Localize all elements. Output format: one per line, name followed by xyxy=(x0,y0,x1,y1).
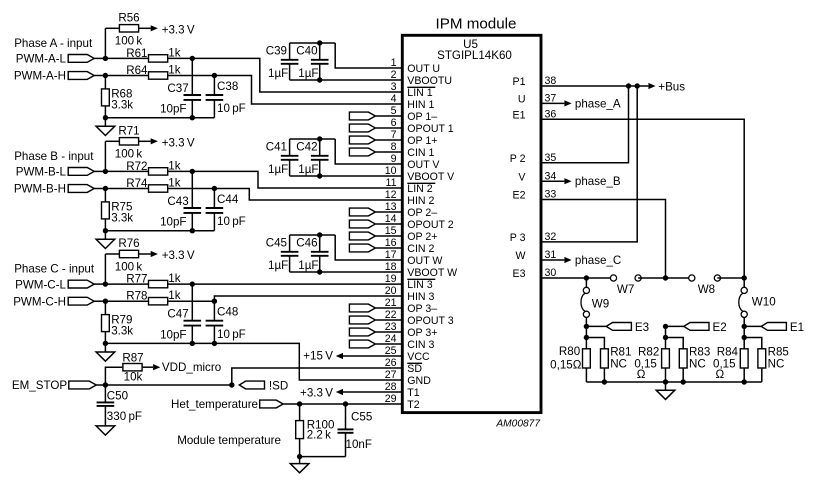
svg-text:OPOUT 2: OPOUT 2 xyxy=(407,219,453,231)
wire ground rail xyxy=(105,117,214,119)
connector !SD xyxy=(239,381,264,389)
resistor R75 3.3k xyxy=(104,189,106,202)
junction R74 output / cap top xyxy=(212,186,217,191)
svg-text:IPM module: IPM module xyxy=(435,16,516,33)
svg-text:W10: W10 xyxy=(752,296,776,309)
resistor R61 1k xyxy=(105,57,148,59)
svg-text:C48: C48 xyxy=(217,306,238,319)
connector E1 xyxy=(744,325,761,327)
svg-text:3.3k: 3.3k xyxy=(111,99,133,112)
resistor R81 NC xyxy=(601,349,609,368)
junction E1 bottom xyxy=(742,379,747,384)
wire E2 pin 33 to E2 column xyxy=(541,200,666,279)
svg-text:10pF: 10pF xyxy=(160,328,186,341)
capacitor C41 1uF xyxy=(289,139,291,156)
svg-text:10nF: 10nF xyxy=(346,438,372,451)
resistor R87 10k xyxy=(105,367,122,385)
svg-text:phase_B: phase_B xyxy=(575,175,621,188)
svg-text:OP 3–: OP 3– xyxy=(407,303,437,315)
svg-text:NC: NC xyxy=(768,357,785,370)
svg-text:HIN 3: HIN 3 xyxy=(407,291,434,303)
svg-text:10 pF: 10 pF xyxy=(217,102,246,115)
svg-text:Ω: Ω xyxy=(716,368,725,381)
svg-text:Het_temperature: Het_temperature xyxy=(171,398,258,411)
svg-text:+3.3 V: +3.3 V xyxy=(300,386,333,399)
svg-text:C40: C40 xyxy=(296,45,317,58)
junction W10 top xyxy=(742,275,747,280)
svg-text:1µF: 1µF xyxy=(268,67,288,80)
junction rail cap xyxy=(190,115,195,120)
svg-text:OPOUT 1: OPOUT 1 xyxy=(407,123,453,135)
resistor R56 xyxy=(105,27,119,29)
wire bootstrap bottom rail to pin 10 xyxy=(290,175,403,177)
svg-text:W: W xyxy=(516,250,526,262)
svg-text:1k: 1k xyxy=(168,289,180,302)
svg-text:NC: NC xyxy=(689,357,706,370)
wire R83 branch xyxy=(666,338,684,349)
svg-text:NC: NC xyxy=(610,357,627,370)
resistor R83 NC xyxy=(679,349,687,368)
wire R85 branch xyxy=(744,338,762,349)
junction input H xyxy=(103,186,108,191)
capacitor C42 1uF xyxy=(319,139,321,156)
wire PWM-L to junction xyxy=(94,170,105,172)
wire P3 pin 32 to bus xyxy=(541,86,637,242)
junction bootstrap top xyxy=(317,232,322,237)
svg-text:OUT U: OUT U xyxy=(407,63,440,75)
svg-text:CIN 1: CIN 1 xyxy=(407,147,434,159)
wire shunt bottom rail xyxy=(586,381,761,383)
junction R61 output / cap top xyxy=(190,56,195,61)
resistor R82 0,15 Ohm xyxy=(665,338,667,349)
wire L line to pin 11 xyxy=(192,171,402,188)
svg-text:10k: 10k xyxy=(124,371,143,384)
junction EM_STOP xyxy=(103,382,108,387)
svg-text:OUT W: OUT W xyxy=(407,255,442,267)
svg-text:VCC: VCC xyxy=(407,351,430,363)
junction R83 bottom xyxy=(681,379,686,384)
svg-text:C43: C43 xyxy=(167,195,188,208)
wire R81 branch xyxy=(586,338,604,349)
capacitor C40 1uF xyxy=(319,43,321,60)
svg-text:VDD_micro: VDD_micro xyxy=(162,361,221,374)
svg-text:C42: C42 xyxy=(296,141,317,154)
svg-text:2.2 k: 2.2 k xyxy=(307,428,331,441)
svg-text:C37: C37 xyxy=(167,82,188,95)
junction input L xyxy=(103,56,108,61)
svg-text:100 k: 100 k xyxy=(115,260,143,273)
wire pull-up to input line xyxy=(104,254,106,284)
svg-text:3.3k: 3.3k xyxy=(111,212,133,225)
svg-text:3.3k: 3.3k xyxy=(111,324,133,337)
capacitor C37 10pF xyxy=(191,58,193,94)
wire H line to pin 4 xyxy=(214,76,402,105)
connector stub pin 15 xyxy=(349,232,375,240)
capacitor C47 10pF xyxy=(191,284,193,320)
svg-text:P1: P1 xyxy=(513,76,526,88)
svg-text:STGIPL14K60: STGIPL14K60 xyxy=(437,49,512,62)
ground xyxy=(104,231,106,240)
wire PWM-L to junction xyxy=(94,283,105,285)
svg-text:+3.3 V: +3.3 V xyxy=(162,137,195,150)
junction R64 output / cap top xyxy=(212,73,217,78)
wire bootstrap bottom rail to pin 18 xyxy=(290,271,403,273)
svg-text:C45: C45 xyxy=(266,237,287,250)
svg-text:OP 1–: OP 1– xyxy=(407,111,437,123)
wire to SD pin 26 xyxy=(232,368,402,385)
junction E1 connector xyxy=(742,324,747,329)
connector E2 xyxy=(666,325,684,327)
capacitor C48 10 pF xyxy=(213,301,215,320)
svg-text:R80: R80 xyxy=(559,345,580,358)
power +3.3 V arrow (R76) xyxy=(151,251,158,257)
svg-text:R72: R72 xyxy=(126,160,147,173)
capacitor C39 1uF xyxy=(289,43,291,60)
svg-text:OP 1+: OP 1+ xyxy=(407,135,437,147)
svg-text:T2: T2 xyxy=(407,399,419,411)
wire L line to pin 19 xyxy=(192,283,402,285)
junction input H xyxy=(103,299,108,304)
svg-text:W7: W7 xyxy=(617,283,634,296)
power +3.3 V arrow (R71) xyxy=(151,138,158,144)
wire E3 pin 30 rail segment 1 xyxy=(541,277,613,279)
wire L line to pin 3 xyxy=(192,58,402,92)
ground C50 xyxy=(96,426,115,435)
resistor R79 3.3k xyxy=(104,301,106,314)
wire T2 line pin 29 xyxy=(283,403,402,405)
svg-text:C38: C38 xyxy=(217,80,238,93)
junction R72 output / cap top xyxy=(190,169,195,174)
wire to pin 17 xyxy=(335,235,402,260)
resistor R76 xyxy=(105,253,119,255)
jumper W9 xyxy=(585,278,587,287)
svg-text:VBOOTU: VBOOTU xyxy=(407,75,452,87)
svg-text:CIN 3: CIN 3 xyxy=(407,339,434,351)
ground xyxy=(104,343,106,352)
svg-text:Phase A - input: Phase A - input xyxy=(14,37,93,50)
svg-text:+3.3 V: +3.3 V xyxy=(162,249,195,262)
svg-text:C47: C47 xyxy=(167,308,188,321)
svg-text:HIN 1: HIN 1 xyxy=(407,99,434,111)
svg-text:1k: 1k xyxy=(168,177,180,190)
svg-text:R56: R56 xyxy=(118,11,139,24)
svg-text:Ω: Ω xyxy=(637,368,646,381)
svg-text:1µF: 1µF xyxy=(268,163,288,176)
svg-text:R71: R71 xyxy=(118,124,139,137)
svg-text:VBOOT V: VBOOT V xyxy=(407,171,455,183)
junction R85 branch xyxy=(743,326,745,337)
svg-text:E1: E1 xyxy=(790,321,804,334)
svg-text:U: U xyxy=(518,94,526,106)
svg-text:C46: C46 xyxy=(296,237,317,250)
resistor R74 1k xyxy=(105,188,148,190)
wire to pin 9 xyxy=(335,139,402,164)
svg-text:LIN 2: LIN 2 xyxy=(407,183,432,195)
svg-text:R64: R64 xyxy=(126,64,148,77)
jumper W8 open circles xyxy=(689,275,695,281)
wire P2 pin 35 to bus xyxy=(541,86,629,163)
net phase_B arrow pin 34 xyxy=(541,180,564,182)
wire bootstrap top rail xyxy=(290,42,336,44)
connector stub pin 7 xyxy=(349,136,375,144)
resistor R84 0,15 Ohm xyxy=(743,338,745,349)
wire PWM-H to junction xyxy=(94,188,105,190)
svg-text:phase_A: phase_A xyxy=(575,97,621,110)
svg-text:!SD: !SD xyxy=(269,379,288,392)
connector stub pin 16 xyxy=(349,244,375,252)
svg-text:10pF: 10pF xyxy=(160,103,186,116)
junction C55 xyxy=(343,401,348,406)
resistor R77 1k xyxy=(105,283,148,285)
wire PWM-H to junction xyxy=(94,300,105,302)
wire H line to pin 12 xyxy=(214,189,402,201)
capacitor C45 1uF xyxy=(289,235,291,252)
capacitor C38 10 pF xyxy=(213,76,215,95)
svg-text:W8: W8 xyxy=(698,283,715,296)
connector E3 xyxy=(586,325,606,327)
IC U5 IPM module box xyxy=(402,35,541,412)
junction R81 bottom xyxy=(602,379,607,384)
junction rail left xyxy=(103,228,108,233)
svg-text:PWM-B-L: PWM-B-L xyxy=(16,166,67,179)
junction R81 branch xyxy=(585,326,587,337)
power +Bus arrow xyxy=(648,83,655,89)
wire bootstrap top rail xyxy=(290,138,336,140)
svg-text:R87: R87 xyxy=(122,351,143,364)
wire phase C rail to GND pin 27 xyxy=(214,343,402,380)
wire pull-up to input line xyxy=(104,28,106,58)
wire bootstrap top rail xyxy=(290,234,336,236)
connector stub pin 24 xyxy=(349,340,375,348)
junction E3 connector xyxy=(584,324,589,329)
svg-text:E2: E2 xyxy=(513,190,526,202)
resistor R85 NC xyxy=(758,349,766,368)
svg-text:R74: R74 xyxy=(126,177,148,190)
svg-text:R78: R78 xyxy=(126,290,147,303)
svg-text:PWM-A-H: PWM-A-H xyxy=(14,70,66,83)
svg-text:CIN 2: CIN 2 xyxy=(407,243,434,255)
svg-text:1µF: 1µF xyxy=(268,259,288,272)
capacitor C43 10pF xyxy=(191,171,193,207)
svg-text:Phase B - input: Phase B - input xyxy=(14,150,94,163)
junction input H xyxy=(103,73,108,78)
svg-text:C50: C50 xyxy=(107,389,128,402)
net phase_C arrow pin 31 xyxy=(541,259,564,261)
svg-text:E3: E3 xyxy=(635,321,649,334)
wire E3 rail segment 2 xyxy=(638,277,692,279)
svg-text:100 k: 100 k xyxy=(115,148,143,161)
wire E1 pin 36 to W10 column xyxy=(541,119,744,278)
junction E2 connector xyxy=(663,324,668,329)
wire H line to pin 20 xyxy=(214,296,402,301)
junction E2 column on rail xyxy=(663,275,668,280)
svg-text:LIN 1: LIN 1 xyxy=(407,87,432,99)
svg-text:OP 3+: OP 3+ xyxy=(407,327,437,339)
wire PWM-H to junction xyxy=(94,75,105,77)
connector stub pin 6 xyxy=(349,124,375,132)
connector stub pin 8 xyxy=(349,148,375,156)
svg-text:C39: C39 xyxy=(266,45,287,58)
svg-text:R76: R76 xyxy=(118,237,139,250)
jumper W10 xyxy=(743,278,745,287)
resistor R72 1k xyxy=(105,170,148,172)
wire EM_STOP line xyxy=(96,384,231,386)
svg-text:LIN 3: LIN 3 xyxy=(407,279,432,291)
svg-text:PWM-C-H: PWM-C-H xyxy=(13,295,66,308)
svg-text:1µF: 1µF xyxy=(298,163,318,176)
svg-text:+Bus: +Bus xyxy=(658,81,685,94)
svg-text:330 pF: 330 pF xyxy=(107,410,142,423)
wire to pin 1 xyxy=(335,43,402,68)
jumper W7 open circles xyxy=(610,275,616,281)
junction SD branch xyxy=(229,382,234,387)
resistor R68 3.3k xyxy=(104,76,106,89)
junction bootstrap top xyxy=(317,40,322,45)
wire ground rail xyxy=(105,342,214,344)
wire R100/C55 rail xyxy=(300,456,346,458)
svg-text:0,15Ω: 0,15Ω xyxy=(550,358,582,371)
capacitor C55 10nF xyxy=(345,404,347,429)
ground R100/C55 xyxy=(299,457,301,464)
connector stub pin 23 xyxy=(349,328,375,336)
resistor R64 1k xyxy=(105,75,148,77)
junction R78 output / cap top xyxy=(212,299,217,304)
junction input L xyxy=(103,169,108,174)
wire E3 rail segment 3 xyxy=(717,277,744,279)
junction bus P3 xyxy=(635,83,640,88)
wire ground rail xyxy=(105,230,214,232)
junction phase C rail / C48 xyxy=(212,341,217,346)
svg-text:100 k: 100 k xyxy=(115,35,143,48)
junction bootstrap bottom xyxy=(317,173,322,178)
resistor R78 1k xyxy=(105,300,148,302)
svg-text:R61: R61 xyxy=(126,47,147,60)
resistor R71 xyxy=(105,140,119,142)
svg-text:phase_C: phase_C xyxy=(575,254,621,267)
junction bus P2 xyxy=(626,83,631,88)
svg-text:PWM-A-L: PWM-A-L xyxy=(16,53,67,66)
junction bootstrap top xyxy=(317,136,322,141)
junction bootstrap bottom xyxy=(317,269,322,274)
svg-text:1µF: 1µF xyxy=(298,259,318,272)
junction rail cap xyxy=(190,228,195,233)
svg-text:1µF: 1µF xyxy=(298,67,318,80)
svg-text:AM00877: AM00877 xyxy=(495,419,540,430)
connector stub pin 13 xyxy=(349,208,375,216)
svg-text:OPOUT 3: OPOUT 3 xyxy=(407,315,453,327)
svg-text:V: V xyxy=(518,171,526,183)
svg-text:1k: 1k xyxy=(168,159,180,172)
wire pull-up to input line xyxy=(104,141,106,171)
net phase_A arrow pin 37 xyxy=(541,102,564,104)
svg-text:C44: C44 xyxy=(217,193,239,206)
junction R100 xyxy=(297,401,302,406)
ground shunt rail xyxy=(665,382,667,390)
svg-text:T1: T1 xyxy=(407,387,419,399)
svg-text:OP 2+: OP 2+ xyxy=(407,231,437,243)
junction rail left xyxy=(103,115,108,120)
power +3.3 V arrow (R56) xyxy=(151,25,158,31)
resistor R80 0,15 Ohm xyxy=(585,338,587,349)
wire bootstrap bottom rail to pin 2 xyxy=(290,79,403,81)
svg-text:E3: E3 xyxy=(513,268,526,280)
wire P1 pin 38 to +Bus xyxy=(541,85,648,87)
junction rail cap xyxy=(190,341,195,346)
junction E2 bottom xyxy=(663,379,668,384)
svg-text:10 pF: 10 pF xyxy=(217,328,246,341)
svg-text:Phase C - input: Phase C - input xyxy=(14,263,95,276)
capacitor C44 10 pF xyxy=(213,189,215,208)
connector stub pin 5 xyxy=(349,112,375,120)
junction input L xyxy=(103,281,108,286)
junction rail xyxy=(297,454,302,459)
svg-text:P 2: P 2 xyxy=(510,153,526,165)
svg-text:SD: SD xyxy=(407,363,422,375)
svg-text:+3.3 V: +3.3 V xyxy=(162,24,195,37)
svg-text:Module temperature: Module temperature xyxy=(177,434,281,447)
svg-text:EM_STOP: EM_STOP xyxy=(12,379,67,392)
resistor R100 2.2 k xyxy=(299,404,301,421)
connector stub pin 22 xyxy=(349,316,375,324)
svg-text:OP 2–: OP 2– xyxy=(407,207,437,219)
svg-text:C41: C41 xyxy=(266,141,287,154)
svg-text:HIN 2: HIN 2 xyxy=(407,195,434,207)
ground xyxy=(104,118,106,127)
svg-text:W9: W9 xyxy=(592,297,609,310)
svg-text:GND: GND xyxy=(407,375,431,387)
svg-text:1k: 1k xyxy=(168,46,180,59)
net VDD_micro arrow xyxy=(153,364,160,370)
svg-text:E1: E1 xyxy=(513,110,526,122)
junction rail left xyxy=(103,341,108,346)
svg-text:P 3: P 3 xyxy=(510,232,526,244)
capacitor C46 1uF xyxy=(319,235,321,252)
svg-text:PWM-B-H: PWM-B-H xyxy=(14,183,66,196)
svg-text:10pF: 10pF xyxy=(160,216,186,229)
svg-text:R77: R77 xyxy=(126,273,147,286)
svg-text:10 pF: 10 pF xyxy=(217,215,246,228)
svg-text:E2: E2 xyxy=(713,321,727,334)
svg-text:PWM-C-L: PWM-C-L xyxy=(15,278,66,291)
junction W9 top xyxy=(584,275,589,280)
capacitor C50 330 pF xyxy=(104,385,106,402)
connector stub pin 14 xyxy=(349,220,375,228)
junction R83 branch xyxy=(665,326,667,337)
svg-text:+15 V: +15 V xyxy=(303,350,333,363)
svg-text:OUT V: OUT V xyxy=(407,159,440,171)
connector stub pin 21 xyxy=(349,304,375,312)
wire PWM-L to junction xyxy=(94,57,105,59)
svg-text:1k: 1k xyxy=(168,64,180,77)
junction R77 output / cap top xyxy=(190,281,195,286)
svg-text:1k: 1k xyxy=(168,272,180,285)
junction bootstrap bottom xyxy=(317,77,322,82)
svg-text:C55: C55 xyxy=(351,410,372,423)
svg-text:VBOOT W: VBOOT W xyxy=(407,267,457,279)
